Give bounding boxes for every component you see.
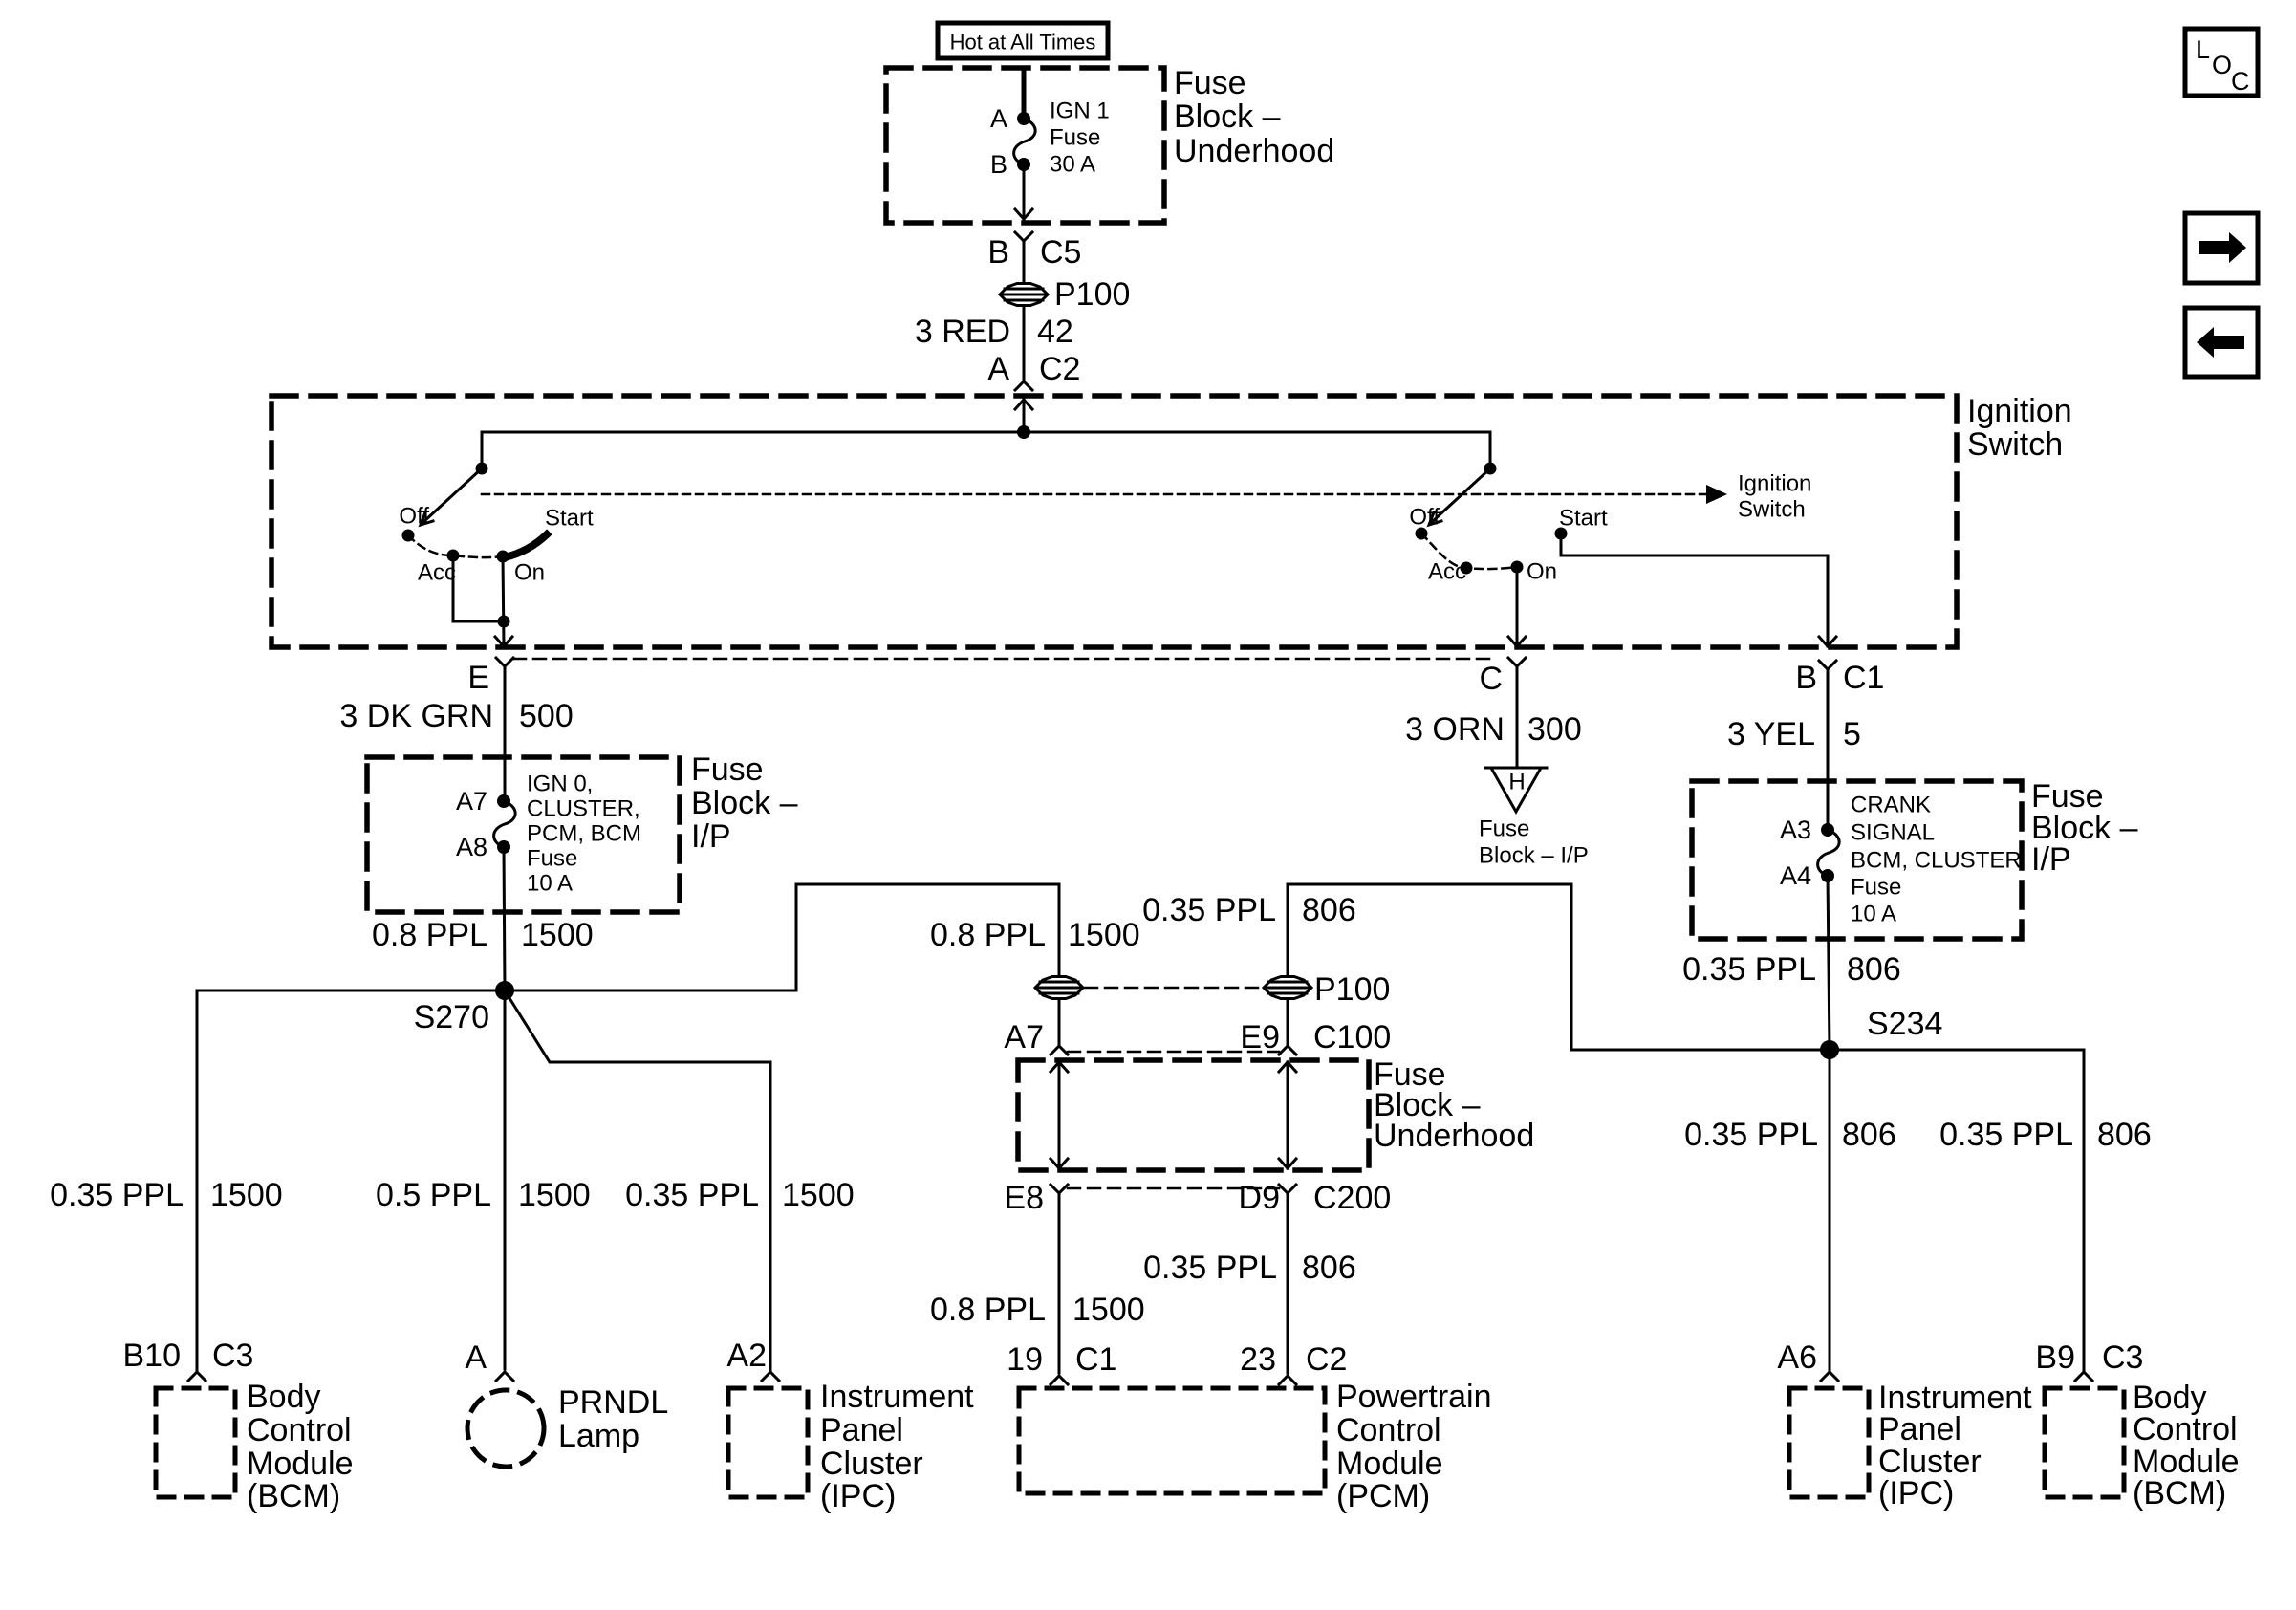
wire On output with arrow <box>495 556 512 646</box>
wire E9 riser 0.35 PPL 806 <box>1279 884 1571 1055</box>
svg-text:Control: Control <box>1336 1412 1441 1448</box>
svg-text:C2: C2 <box>1039 351 1080 387</box>
svg-text:PRNDL: PRNDL <box>558 1384 668 1421</box>
svg-text:E8: E8 <box>1004 1180 1044 1216</box>
svg-text:B: B <box>1795 660 1817 696</box>
connector line (thin dashed) A7-E9 <box>1068 1051 1279 1054</box>
connector chevron C <box>1508 658 1526 766</box>
node pin A dot <box>1017 112 1030 125</box>
pin label E9 / C100 <box>1240 1019 1391 1055</box>
fuse block underhood (top) dashed box <box>886 68 1164 223</box>
svg-text:C1: C1 <box>1075 1341 1116 1378</box>
svg-text:Underhood: Underhood <box>1174 133 1334 169</box>
svg-text:Start: Start <box>1559 506 1608 532</box>
svg-text:Powertrain: Powertrain <box>1336 1379 1492 1415</box>
svg-text:Off: Off <box>399 504 429 530</box>
svg-text:0.5 PPL: 0.5 PPL <box>376 1177 491 1213</box>
connector line (thin dashed) below ignition switch <box>513 658 1496 661</box>
key position thick arc to Start <box>505 534 547 557</box>
connector chevron E8 <box>1051 1185 1068 1373</box>
pin label B / C1 <box>1795 660 1884 696</box>
label Ignition Switch <box>1967 393 2072 463</box>
legend right-arrow box <box>2185 213 2258 283</box>
svg-text:B: B <box>987 234 1009 271</box>
svg-text:1500: 1500 <box>782 1177 855 1213</box>
svg-text:0.8 PPL: 0.8 PPL <box>930 1292 1046 1328</box>
svg-text:Module: Module <box>247 1446 354 1482</box>
connector chevron B9 <box>2075 1372 2092 1381</box>
pin label A / C2 <box>987 351 1080 387</box>
connector line (thin dashed) E8-D9 <box>1068 1187 1279 1190</box>
node pin A3 dot <box>1821 823 1834 837</box>
connector chevron 19 C1 <box>1051 1376 1068 1384</box>
svg-text:42: 42 <box>1037 314 1073 350</box>
pin label 19 / C1 <box>1007 1341 1116 1378</box>
svg-text:P100: P100 <box>1054 276 1130 313</box>
svg-text:(BCM): (BCM) <box>247 1478 340 1514</box>
svg-text:0.35 PPL: 0.35 PPL <box>1684 1117 1818 1153</box>
svg-text:Fuse: Fuse <box>1479 816 1529 842</box>
svg-text:1500: 1500 <box>1068 917 1140 953</box>
svg-text:A8: A8 <box>456 833 487 861</box>
svg-text:On: On <box>514 560 545 586</box>
svg-text:Acc: Acc <box>1428 559 1466 585</box>
svg-text:Panel: Panel <box>1878 1411 1961 1447</box>
wire left pivot drop <box>481 432 484 468</box>
svg-text:IGN 0,: IGN 0, <box>527 772 593 797</box>
svg-text:(BCM): (BCM) <box>2133 1475 2226 1512</box>
svg-text:806: 806 <box>1842 1117 1896 1153</box>
node pin B dot <box>1017 158 1030 171</box>
switch detent arc right (dashed) <box>1421 533 1517 569</box>
svg-text:500: 500 <box>519 698 574 734</box>
svg-text:300: 300 <box>1527 711 1582 748</box>
connector chevron 23 C2 <box>1279 1376 1296 1384</box>
svg-text:PCM, BCM: PCM, BCM <box>527 821 641 847</box>
value label 0.35 PPL / 806 <box>1684 1117 1896 1153</box>
svg-text:0.35 PPL: 0.35 PPL <box>1682 951 1816 988</box>
svg-text:Acc: Acc <box>418 560 456 586</box>
value label 0.35 PPL / 806 <box>1682 951 1901 988</box>
svg-text:L: L <box>2196 35 2210 64</box>
svg-text:(IPC): (IPC) <box>820 1478 896 1514</box>
lamp PRNDL (dashed circle) <box>467 1384 668 1467</box>
svg-text:Panel: Panel <box>820 1412 903 1448</box>
svg-text:Off: Off <box>1409 505 1440 531</box>
svg-text:Fuse: Fuse <box>691 751 764 788</box>
svg-text:1500: 1500 <box>521 917 594 953</box>
svg-text:10 A: 10 A <box>527 871 573 897</box>
node Off contact left <box>402 530 415 542</box>
svg-text:C: C <box>1479 661 1503 697</box>
svg-text:C1: C1 <box>1843 660 1884 696</box>
node On contact right <box>1511 561 1524 574</box>
connector chevron E <box>496 658 513 801</box>
module Body Control Module (BCM) left <box>156 1379 354 1514</box>
svg-text:C100: C100 <box>1313 1019 1391 1055</box>
value label 3 DK GRN / 500 <box>339 698 573 734</box>
svg-text:IGN 1: IGN 1 <box>1050 98 1110 124</box>
wire right pivot drop <box>1489 432 1492 468</box>
connector P100 grommet (top) <box>1000 284 1048 306</box>
connector P100 grommet (right of pair) <box>1264 977 1311 999</box>
svg-text:806: 806 <box>2097 1117 2152 1153</box>
value label 0.35 PPL / 1500 <box>50 1177 283 1213</box>
wire fuse output with arrow <box>1015 164 1032 219</box>
svg-text:Fuse: Fuse <box>1050 125 1100 151</box>
svg-text:806: 806 <box>1847 951 1901 988</box>
svg-text:A: A <box>465 1339 487 1376</box>
value label 0.8 PPL / 1500 <box>372 917 594 953</box>
label Fuse Block - I/P <box>2031 778 2138 878</box>
svg-text:I/P: I/P <box>691 818 731 855</box>
fuse CRANK SIGNAL 10A element <box>1818 830 1840 876</box>
svg-text:Block – I/P: Block – I/P <box>1479 843 1589 869</box>
svg-text:BCM, CLUSTER: BCM, CLUSTER <box>1851 848 2022 874</box>
label Fuse Block - I/P <box>691 751 798 855</box>
node Start contact right <box>1555 528 1568 540</box>
svg-text:Block –: Block – <box>1174 98 1281 135</box>
module Body Control Module (BCM) right <box>2045 1380 2240 1512</box>
svg-text:Lamp: Lamp <box>558 1418 639 1454</box>
svg-text:23: 23 <box>1240 1341 1276 1378</box>
svg-text:CLUSTER,: CLUSTER, <box>527 796 640 822</box>
label Fuse Block - Underhood <box>1374 1056 1534 1154</box>
svg-text:C5: C5 <box>1040 234 1081 271</box>
label Fuse Block - Underhood <box>1174 65 1334 169</box>
fuse IGN 1 30A element <box>1014 119 1036 164</box>
svg-text:I/P: I/P <box>2031 841 2071 878</box>
svg-text:A3: A3 <box>1780 816 1811 844</box>
node pin A4 dot <box>1821 869 1834 882</box>
wire A7 lead <box>1051 999 1068 1055</box>
svg-text:3 YEL: 3 YEL <box>1727 716 1815 752</box>
node right pivot dot <box>1484 463 1497 475</box>
svg-text:A: A <box>990 104 1007 133</box>
wire feed entering box with up arrow <box>1015 400 1032 432</box>
svg-text:0.35 PPL: 0.35 PPL <box>1142 892 1276 928</box>
value label 0.35 PPL / 806 <box>1143 1250 1356 1286</box>
svg-text:C2: C2 <box>1306 1341 1347 1378</box>
wire pass-through right (arrows) <box>1279 1062 1296 1168</box>
wire fuse output 0.35 PPL to S234 <box>1828 876 1830 1050</box>
node splice S234 <box>1820 1040 1839 1059</box>
svg-text:B9: B9 <box>2035 1339 2075 1376</box>
node splice S270 <box>495 981 514 1000</box>
module Instrument Panel Cluster (IPC) right <box>1789 1380 2032 1512</box>
wire S270 right riser to A7 feed <box>505 884 1059 990</box>
wire fuse output 0.8 PPL <box>504 847 505 990</box>
svg-text:Fuse: Fuse <box>1174 65 1246 101</box>
value label 0.5 PPL / 1500 <box>376 1177 591 1213</box>
svg-text:Instrument: Instrument <box>820 1379 974 1415</box>
svg-text:S270: S270 <box>414 999 489 1035</box>
svg-text:3 ORN: 3 ORN <box>1405 711 1505 748</box>
node left pivot dot <box>476 463 488 475</box>
svg-text:E: E <box>467 660 489 696</box>
wire 3 RED 42 <box>1023 306 1026 380</box>
svg-text:Underhood: Underhood <box>1374 1118 1534 1154</box>
svg-text:1500: 1500 <box>518 1177 591 1213</box>
value label IGN 0 CLUSTER PCM BCM Fuse 10 A <box>527 772 641 897</box>
svg-text:C3: C3 <box>2102 1339 2143 1376</box>
svg-text:(IPC): (IPC) <box>1878 1475 1954 1512</box>
svg-text:0.35 PPL: 0.35 PPL <box>1143 1250 1277 1286</box>
ignition switch dashed box <box>271 396 1957 647</box>
wire S234 right to B9 branch <box>1830 1050 2084 1371</box>
svg-text:1500: 1500 <box>1072 1292 1145 1328</box>
switch arm right with arrowhead <box>1429 468 1490 525</box>
svg-text:(PCM): (PCM) <box>1336 1478 1430 1514</box>
svg-text:C3: C3 <box>212 1338 253 1374</box>
svg-text:P100: P100 <box>1314 971 1390 1008</box>
svg-text:Control: Control <box>247 1412 352 1448</box>
wire pass-through left (arrows) <box>1051 1062 1068 1168</box>
svg-text:0.35 PPL: 0.35 PPL <box>1939 1117 2073 1153</box>
fuse block I/P (left) dashed box <box>367 757 680 912</box>
svg-text:Block –: Block – <box>691 785 798 821</box>
value label CRANK SIGNAL BCM CLUSTER Fuse 10 A <box>1851 793 2022 927</box>
label Fuse Block - I/P (small) <box>1479 816 1589 869</box>
wire On output right with arrow <box>1508 567 1526 646</box>
svg-text:Switch: Switch <box>1738 497 1806 523</box>
svg-text:B: B <box>990 150 1007 179</box>
svg-text:806: 806 <box>1302 892 1356 928</box>
svg-text:Cluster: Cluster <box>820 1446 923 1482</box>
svg-text:E9: E9 <box>1240 1019 1280 1055</box>
svg-text:806: 806 <box>1302 1250 1356 1286</box>
svg-text:Fuse: Fuse <box>1851 875 1901 901</box>
switch arm left with arrowhead <box>421 468 482 525</box>
value label 3 ORN / 300 <box>1405 711 1582 748</box>
node feed junction <box>1017 425 1030 439</box>
value label 0.8 PPL / 1500 <box>930 917 1140 953</box>
svg-text:A: A <box>987 351 1009 387</box>
svg-text:O: O <box>2212 51 2232 79</box>
node pin A7 dot <box>497 794 510 808</box>
svg-text:Hot at All Times: Hot at All Times <box>950 31 1096 54</box>
connector P100 grommet (left of pair) <box>1035 977 1083 999</box>
svg-text:Fuse: Fuse <box>527 846 577 872</box>
node pin A8 dot <box>497 840 510 854</box>
connector chevron D9 <box>1279 1185 1296 1373</box>
node On/Acc junction <box>498 616 510 628</box>
svg-text:B10: B10 <box>123 1338 182 1374</box>
svg-text:0.8 PPL: 0.8 PPL <box>930 917 1046 953</box>
node Acc contact left <box>447 550 460 562</box>
value label 3 RED / 42 <box>915 314 1073 350</box>
wire S270 down to PRNDL <box>504 990 507 1369</box>
value label 0.35 PPL / 806 <box>1142 892 1356 928</box>
value label 0.8 PPL / 1500 <box>930 1292 1145 1328</box>
node Acc contact right <box>1461 562 1473 575</box>
value label 0.35 PPL / 806 <box>1939 1117 2152 1153</box>
svg-text:0.8 PPL: 0.8 PPL <box>372 917 487 953</box>
svg-text:Start: Start <box>545 506 594 532</box>
fuse block I/P (right) dashed box <box>1692 781 2022 939</box>
svg-text:10 A: 10 A <box>1851 902 1896 927</box>
svg-text:D9: D9 <box>1239 1180 1280 1216</box>
value label 0.35 PPL / 1500 <box>625 1177 855 1213</box>
pin label 23 / C2 <box>1240 1341 1347 1378</box>
svg-text:C: C <box>2231 67 2250 96</box>
svg-text:A6: A6 <box>1777 1339 1817 1376</box>
node On contact left <box>497 551 509 563</box>
svg-text:3 RED: 3 RED <box>915 314 1010 350</box>
svg-text:Ignition: Ignition <box>1967 393 2072 429</box>
connector chevron A (PRNDL) <box>496 1372 513 1381</box>
value label 3 YEL / 5 <box>1727 716 1861 752</box>
module Powertrain Control Module (PCM) <box>1019 1379 1492 1514</box>
wire stem into fuse <box>1022 70 1027 119</box>
svg-text:19: 19 <box>1007 1341 1043 1378</box>
connector chevron B/C5 <box>1015 232 1032 283</box>
wire Acc branch left <box>453 555 504 621</box>
pin label B10 / C3 <box>123 1338 254 1374</box>
legend left-arrow box <box>2185 308 2258 377</box>
mechanical linkage dashed line with arrow <box>482 485 1727 504</box>
svg-text:30 A: 30 A <box>1050 152 1095 178</box>
svg-text:A7: A7 <box>1004 1019 1044 1055</box>
fuse IGN 0 10A element <box>494 801 516 847</box>
wire S270 to left branch <box>197 990 505 1371</box>
dashed tie between P100 grommets <box>1085 987 1262 990</box>
svg-text:SIGNAL: SIGNAL <box>1851 820 1935 846</box>
ground distribution triangle H <box>1485 768 1547 812</box>
connector chevron A6 <box>1821 1372 1838 1381</box>
connector chevron A/C2 <box>1015 381 1032 390</box>
wire S234 down to A6 <box>1829 1050 1831 1371</box>
svg-text:5: 5 <box>1843 716 1861 752</box>
svg-text:3 DK GRN: 3 DK GRN <box>339 698 493 734</box>
svg-text:0.35 PPL: 0.35 PPL <box>50 1177 184 1213</box>
svg-text:Module: Module <box>1336 1446 1443 1482</box>
legend LOC box <box>2185 29 2258 96</box>
fuse block underhood (mid) dashed box <box>1018 1060 1369 1170</box>
wire S270 diagonal to IPC branch <box>505 990 770 1371</box>
svg-text:Body: Body <box>247 1379 321 1415</box>
module Instrument Panel Cluster (IPC) left <box>728 1379 974 1514</box>
svg-text:0.35 PPL: 0.35 PPL <box>625 1177 759 1213</box>
svg-text:Ignition: Ignition <box>1738 471 1811 497</box>
node Off contact right <box>1416 528 1428 540</box>
connector chevron B/C1 <box>1819 661 1836 830</box>
svg-text:Switch: Switch <box>1967 426 2063 463</box>
label Ignition Switch (small) <box>1738 471 1811 523</box>
wire ignition feed bus <box>482 431 1490 434</box>
svg-text:A2: A2 <box>726 1338 767 1374</box>
wire link from E9 riser to S234 <box>1571 884 1830 1050</box>
switch detent arc left (dashed) <box>408 535 503 557</box>
svg-text:Control: Control <box>2133 1411 2238 1447</box>
svg-text:On: On <box>1527 559 1557 585</box>
pin label D9 / C200 <box>1239 1180 1392 1216</box>
value label IGN 1 Fuse 30 A <box>1050 98 1110 178</box>
svg-text:S234: S234 <box>1867 1006 1942 1042</box>
svg-text:H: H <box>1508 770 1525 795</box>
svg-text:1500: 1500 <box>210 1177 283 1213</box>
svg-text:C200: C200 <box>1313 1180 1391 1216</box>
svg-text:A4: A4 <box>1780 861 1811 890</box>
svg-text:CRANK: CRANK <box>1851 793 1931 818</box>
pin label B9 / C3 <box>2035 1339 2143 1376</box>
connector chevron B10 <box>188 1372 206 1381</box>
wire Start output right with arrow <box>1561 533 1836 646</box>
power tag Hot at All Times <box>938 23 1108 58</box>
svg-text:A7: A7 <box>456 787 487 816</box>
connector chevron A2 <box>762 1372 779 1381</box>
